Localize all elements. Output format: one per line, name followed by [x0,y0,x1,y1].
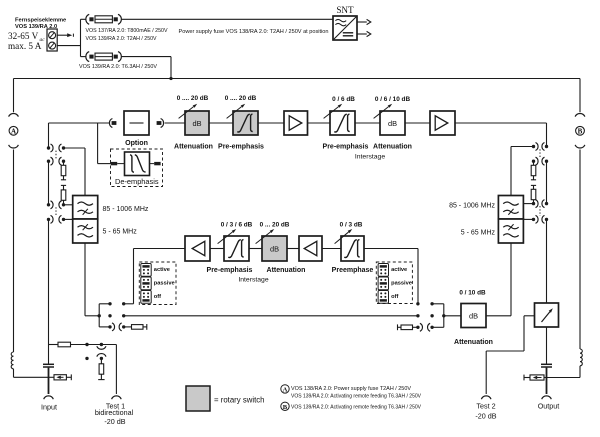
svg-text:5 - 65 MHz: 5 - 65 MHz [103,229,138,236]
connector pair right field off row [416,326,419,329]
svg-text:Interstage: Interstage [355,153,385,160]
amplifier stage 1 [284,111,308,135]
jumper contacts right field active row [416,302,419,305]
wire main line R2-R3 [546,161,548,203]
remote feed power line across top [14,78,581,80]
svg-text:Attenuation: Attenuation [454,339,493,346]
svg-text:passive: passive [154,281,175,287]
wire test1 coupler row [49,344,59,346]
wire left outer line lower [13,150,15,353]
wire to amp4 [287,248,299,250]
fuse F2 (T6.3AH) for remote feeding [86,52,89,62]
wire to attenuator [165,122,185,124]
adjust arrow return attenuator [256,232,271,244]
svg-text:-20 dB: -20 dB [104,417,125,426]
coupling resistor test1 [58,342,71,347]
resistor stub upper right column [533,161,535,165]
connector pair L2 [47,160,50,163]
wire forward row from left column [48,123,50,148]
test point Test 2 connector [481,396,491,399]
svg-text:85 - 1006 MHz: 85 - 1006 MHz [449,203,495,210]
test point Test 1 connector [112,396,122,399]
wire main line L2-L3 [48,161,50,205]
SNT output arrow 1 [357,21,367,23]
svg-text:32-65 V: 32-65 V [8,31,39,41]
jumper block passive right [378,277,388,290]
module De-emphasis [125,152,150,176]
junction test1 row [85,343,88,346]
wire terminal lower screw to fuse branch [57,45,80,47]
diplex filter right low-pass 5-65 MHz [498,219,523,243]
amplifier stage 2 [430,111,455,135]
attenuator 0...20 dB (rotary) [185,111,209,135]
svg-text:VOS 139/RA 2.0: T6.3AH / 250V: VOS 139/RA 2.0: T6.3AH / 250V [79,64,157,70]
wire diplexer low port down to return field [84,243,86,316]
interstage attenuator 0/6/10 dB [380,111,405,135]
svg-text:0 / 6 / 10 dB: 0 / 6 / 10 dB [375,96,411,103]
wire right outer line upper [579,79,581,113]
svg-text:5 - 65 MHz: 5 - 65 MHz [461,230,496,237]
wire output line [546,327,548,364]
ganged jumper dotted link L3-L4 [55,207,57,217]
test point coupler lower half [97,354,106,357]
svg-text:VOS 139/RA 2.0: Activating rem: VOS 139/RA 2.0: Activating remote feedin… [291,393,421,399]
svg-text:A: A [283,387,288,394]
wire amp2 to right column [455,122,547,124]
svg-text:dB: dB [270,244,279,253]
adjust arrow preemphase [335,232,349,244]
power supply SNT (AC/DC converter) [333,16,357,40]
svg-text:Test 2: Test 2 [476,401,495,410]
inductor left feed choke [11,352,13,369]
adjust arrow pre-emphasis [227,107,242,119]
wire right outer to output line [579,366,581,378]
svg-text:Fernspeiseklemme: Fernspeiseklemme [15,18,66,24]
wire diplexer to pair R3 [523,203,533,205]
svg-text:Pre-emphasis: Pre-emphasis [207,267,253,274]
pad right of de-emphasis module [154,162,160,165]
diplex filter left high-pass 85-1006 MHz [73,196,98,220]
svg-text:-20 dB: -20 dB [475,411,496,420]
svg-text:Interstage: Interstage [238,276,268,283]
connector A upper half [9,113,19,116]
junction on remote feed line [169,77,172,80]
node A (fuse position A) [9,126,18,135]
adjust arrow return pre-emphasis [218,232,233,244]
svg-text:dB: dB [469,311,478,320]
svg-text:dB: dB [192,119,201,128]
wire right diplexer top to pair R1 [510,147,512,196]
wire to amp2 [405,122,430,124]
junction left field [98,314,101,317]
feed through resistor input with direction arrow [49,376,55,378]
svg-text:bidirectional: bidirectional [95,408,134,417]
svg-text:Pre-emphasis: Pre-emphasis [218,144,264,151]
resistor stub lower left column [61,184,66,186]
output connector [542,396,552,399]
jumper contacts left field active row [108,302,111,305]
wire amp1 to interstage pre-emphasis [308,122,331,124]
wire fuse F1 to SNT [81,18,86,20]
svg-text:VOS 139/RA 2.0: VOS 139/RA 2.0 [15,24,57,30]
slope equalizer module [535,303,559,327]
pad near coupler [85,357,88,360]
connector before Option module [109,119,112,128]
return preemphase 0/3 dB [341,236,364,261]
legend rotary switch sample box [186,386,210,411]
jumper block off right [378,291,388,304]
diplex filter left low-pass 5-65 MHz [73,219,98,243]
wire input line lower [48,368,50,394]
fuse F1 (T800mAE / T2AH) [86,14,89,24]
connector B upper half [575,113,585,116]
diplex filter right high-pass 85-1006 MHz [498,196,523,220]
wire left field bracket [99,303,110,305]
wire to Test 1 connector [115,345,117,395]
jumper block active right [378,264,388,277]
wire pair L3 to diplexer [64,204,73,206]
junction right field [442,314,445,317]
svg-text:active: active [154,267,170,273]
feed through resistor output with direction arrow [523,375,525,381]
svg-text:0 ... 20 dB: 0 ... 20 dB [260,221,290,228]
wire to interstage attenuator [355,122,380,124]
svg-text:passive: passive [391,281,412,287]
jumper block passive left [141,277,151,290]
SNT output arrow 2 [357,33,367,35]
jumper block off left [141,291,151,304]
jumper contacts right field passive row [416,314,419,317]
inductor right feed choke [580,349,582,366]
legend node B circle [281,402,289,410]
arrow from terminal upper screw [57,34,68,36]
wire return row to amp3 [134,248,186,250]
jumper setting box right (dashed) [376,262,412,304]
svg-text:0 .... 20 dB: 0 .... 20 dB [225,95,257,102]
wire right field bracket [432,303,444,305]
ganged jumper dotted link L1-L2 [55,151,57,159]
connector pair R3 [532,202,535,205]
capacitor output DC block [541,363,552,365]
ganged jumper dotted link R1-R2 [539,149,541,157]
return pre-emphasis 0/3/6 dB [224,236,249,261]
pad left of de-emphasis module [111,162,117,165]
capacitor input DC block [43,363,54,365]
svg-text:VOS 139/RA 2.0: T2AH / 250V: VOS 139/RA 2.0: T2AH / 250V [86,36,157,42]
svg-text:A: A [11,128,16,136]
wire pair L4 to diplexer [64,218,73,220]
connector pair R4 [532,218,535,221]
adjust arrow attenuator [179,107,194,119]
wire test2 tap [524,315,535,317]
de-emphasis option outline (dashed) [111,149,163,187]
svg-text:SNT: SNT [336,5,354,15]
input connector [44,396,54,399]
test point coupler upper half [100,343,103,346]
svg-text:VOS 137/RA 2.0: T800mAE / 250V: VOS 137/RA 2.0: T800mAE / 250V [86,28,168,34]
svg-text:VOS 138/RA 2.0: Power supply f: VOS 138/RA 2.0: Power supply fuse T2AH /… [291,386,411,392]
connector pair L3 [47,203,50,206]
return attenuator 0...20 dB (rotary) [262,236,287,261]
node B (fuse position B) [576,126,585,135]
svg-text:Power supply fuse VOS 138/RA 2: Power supply fuse VOS 138/RA 2.0: T2AH /… [179,29,329,35]
svg-text:active: active [391,267,407,273]
jumper setting box left (dashed) [139,262,176,305]
terminating resistor test1 coupler [100,358,102,363]
svg-text:Attenuation: Attenuation [267,267,306,274]
wire to return attenuator [249,248,262,250]
connector pair L4 [47,218,50,221]
svg-text:Option: Option [125,139,148,147]
wire output riser [546,219,548,303]
svg-text:Preemphase: Preemphase [332,267,374,274]
jumper contacts left field passive row [108,314,111,317]
svg-text:off: off [391,294,398,300]
wire input riser [48,219,50,344]
jumper block active left [141,264,151,277]
connector B lower half [575,145,585,148]
return feeder attenuator 0/10 dB [461,304,486,328]
wire left outer line upper [13,79,15,113]
svg-text:Attenuation: Attenuation [174,144,213,151]
svg-text:0 / 6 dB: 0 / 6 dB [332,96,355,103]
svg-text:Output: Output [538,401,560,410]
resistor stub upper left column [63,161,65,165]
module Option (bridge) [124,111,149,135]
terminal block Fernspeiseklemme VOS 139/RA 2.0 [47,29,57,51]
wire attenuator to pre-emphasis [209,122,233,124]
wire left outer to input line [13,369,15,378]
svg-text:De-emphasis: De-emphasis [115,177,159,186]
pre-emphasis 0...20 dB (rotary) [233,111,258,135]
interstage pre-emphasis 0/6 dB [330,111,355,135]
wire amp4 to preemphase [322,248,341,250]
svg-text:B: B [283,404,288,411]
wire pair L1 to diplexer top [64,147,86,149]
terminating resistor right field [397,324,399,330]
wire branch to de-emphasis [97,123,99,164]
svg-text:off: off [154,294,161,300]
svg-text:= rotary switch: = rotary switch [214,396,264,405]
connector pair R2 [532,160,535,163]
return amplifier input stage [299,236,322,261]
svg-text:max. 5 A: max. 5 A [8,41,42,51]
wire preemphase to right return field [364,248,418,250]
wire right field to return attenuator [444,315,461,317]
svg-text:Attenuation: Attenuation [373,144,412,151]
svg-text:0 / 3 dB: 0 / 3 dB [340,221,363,228]
wire fuse F2 to remote feed line [81,56,86,58]
resistor stub lower right column [531,184,536,186]
wire return bypass line [124,315,418,317]
wire pre-emphasis to amp1 [258,122,284,124]
svg-text:Input: Input [41,403,57,412]
return amplifier stage [185,236,210,261]
legend node A circle [281,385,289,393]
wire output line lower [546,368,548,394]
svg-text:Pre-emphasis: Pre-emphasis [323,144,369,151]
svg-text:B: B [578,128,583,136]
terminating resistor left field [124,326,132,328]
wire input line upper [48,345,50,364]
svg-text:0 .... 20 dB: 0 .... 20 dB [177,95,209,102]
connector after Option module [157,121,162,125]
svg-text:85 - 1006 MHz: 85 - 1006 MHz [103,206,149,213]
adjust arrow interstage pre-emphasis [324,107,339,119]
wire amp3 to return pre-emphasis [210,248,224,250]
wire attenuator to right diplexer [486,315,511,317]
wire diplexer to pair R4 [523,218,533,220]
ganged jumper dotted link R3-R4 [539,206,541,216]
wire resistor to test1 connector [71,344,117,346]
connector pair R1 [532,145,535,148]
svg-text:dB: dB [388,119,397,128]
connector A lower half [9,145,19,148]
wire right outer line lower [579,150,581,350]
connector pair L1 [47,146,50,149]
svg-text:0 / 10 dB: 0 / 10 dB [459,289,486,296]
svg-text:0 / 3 / 6 dB: 0 / 3 / 6 dB [221,221,253,228]
svg-text:VOS 139/RA 2.0: Activating rem: VOS 139/RA 2.0: Activating remote feedin… [291,405,421,411]
connector pair left field off row [108,325,111,328]
adjust arrow interstage attenuator [374,107,389,119]
